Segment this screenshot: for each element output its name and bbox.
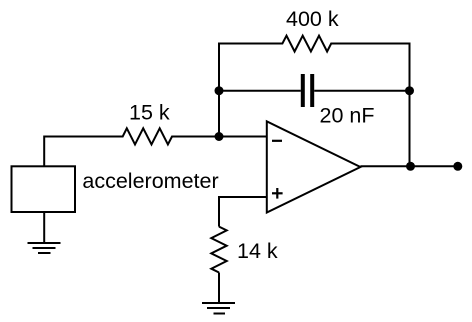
- svg-text:20 nF: 20 nF: [320, 104, 375, 128]
- svg-text:14 k: 14 k: [237, 239, 278, 263]
- svg-text:400 k: 400 k: [286, 7, 339, 31]
- svg-text:accelerometer: accelerometer: [82, 169, 218, 193]
- svg-text:15 k: 15 k: [129, 101, 170, 125]
